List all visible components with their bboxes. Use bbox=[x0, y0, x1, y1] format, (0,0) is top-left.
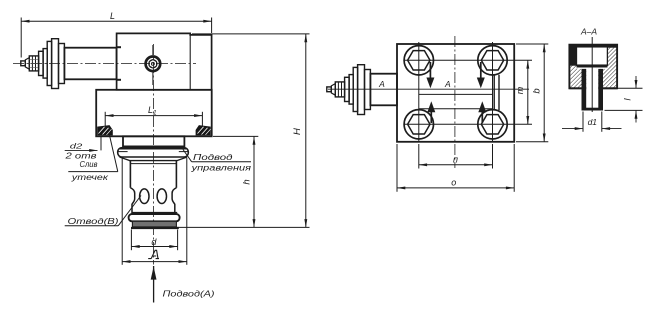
wire body step edge bbox=[189, 35, 191, 90]
node bolt hole walls bbox=[586, 69, 598, 110]
wire slot line 1 bbox=[493, 75, 495, 110]
wire leader to pocket bbox=[109, 133, 118, 172]
svg-text:о: о bbox=[451, 178, 456, 188]
node washer line bbox=[577, 65, 608, 68]
node drain pocket right (d2) bbox=[196, 125, 211, 135]
wire screw tip knob bbox=[21, 61, 26, 66]
wire screw locknut bbox=[52, 39, 59, 89]
node hex plug on body bbox=[146, 57, 161, 72]
node dimension H bbox=[192, 33, 310, 35]
node dimension p bbox=[418, 144, 420, 169]
node left-view bbox=[13, 11, 310, 302]
svg-text:управления: управления bbox=[190, 162, 251, 172]
node dimension d1 bbox=[582, 112, 584, 132]
node dimension m bbox=[527, 60, 529, 124]
wire screw spacer bbox=[43, 49, 47, 79]
svg-text:Отвод(В): Отвод(В) bbox=[68, 216, 119, 226]
wire centerline vertical (left view) bbox=[152, 44, 154, 265]
wire screw flange bbox=[353, 67, 357, 111]
wire screw threaded section bbox=[29, 56, 38, 71]
wire screw washer bbox=[39, 51, 44, 75]
node seal ring bbox=[132, 221, 176, 227]
svg-text:А–А: А–А bbox=[580, 26, 597, 36]
node dimension L bbox=[21, 20, 211, 22]
node sectioned block bbox=[569, 45, 617, 89]
wire cartridge lower seal groove bbox=[129, 214, 180, 221]
svg-text:d1: d1 bbox=[588, 117, 598, 127]
node bolt top-right bbox=[478, 46, 507, 75]
node dimension L1 bbox=[105, 115, 202, 117]
node section arrow top-right bbox=[480, 62, 482, 79]
wire channel bottom edge bbox=[419, 108, 493, 110]
wire leader to bulge bbox=[183, 150, 192, 162]
wire screw collar bbox=[59, 44, 65, 84]
node dimension d bbox=[130, 230, 132, 251]
svg-text:2 отв: 2 отв bbox=[64, 151, 96, 160]
wire screw spacer bbox=[349, 75, 353, 105]
svg-text:А: А bbox=[378, 79, 385, 89]
node section A-A view bbox=[562, 26, 643, 131]
svg-text:H: H bbox=[292, 128, 303, 135]
node dimension b bbox=[516, 43, 548, 45]
wire cartridge seal bulge bbox=[118, 148, 189, 157]
node port hole B right bbox=[157, 189, 166, 204]
wire top face band bbox=[569, 45, 617, 48]
wire centerline screw axis (left view) bbox=[13, 63, 196, 65]
node section arrow bottom-right bbox=[481, 106, 483, 123]
node top-view bbox=[327, 36, 549, 192]
wire leader to port B bbox=[118, 196, 141, 226]
wire cartridge taper bbox=[120, 157, 188, 161]
wire channel top edge bbox=[419, 93, 493, 95]
wire left wall solid upper bbox=[569, 45, 576, 66]
node section arrow top-left bbox=[429, 62, 431, 79]
wire screw locknut bbox=[358, 65, 365, 115]
wire centerline vertical (top view) bbox=[454, 36, 456, 168]
node dimension o bbox=[396, 144, 398, 192]
wire tube joint bottom bbox=[117, 79, 121, 81]
node dimension D bbox=[121, 158, 123, 265]
node drain pocket left (d2) bbox=[97, 125, 113, 135]
node bolt bottom-right bbox=[478, 110, 507, 139]
svg-text:d2: d2 bbox=[70, 142, 84, 151]
svg-text:m: m bbox=[515, 86, 525, 94]
wire cartridge neck bbox=[130, 188, 134, 214]
node section arrow bottom-left bbox=[430, 106, 432, 123]
node dimension h bbox=[213, 135, 258, 137]
wire spring tube bbox=[64, 48, 116, 80]
wire cartridge bottom face bbox=[131, 227, 179, 229]
wire screw threaded section bbox=[335, 82, 344, 97]
wire screw washer bbox=[345, 77, 350, 101]
wire leader from pocket bbox=[100, 137, 102, 151]
svg-text:Слив: Слив bbox=[80, 160, 98, 169]
wire centerline section A-A bbox=[591, 37, 593, 112]
wire centerline bolt row top bbox=[404, 59, 532, 61]
svg-text:b: b bbox=[531, 88, 542, 93]
svg-text:п: п bbox=[453, 154, 458, 164]
wire tube joint top bbox=[117, 46, 121, 48]
wire slot line 2 bbox=[498, 75, 500, 110]
node supply arrow Podvod A bbox=[153, 266, 155, 303]
svg-text:L: L bbox=[110, 11, 115, 21]
wire screw tip knob bbox=[327, 87, 332, 92]
svg-text:А: А bbox=[444, 79, 451, 89]
svg-text:h: h bbox=[241, 179, 252, 184]
wire cartridge top collar bbox=[123, 136, 184, 146]
wire cylinder bottom step bbox=[132, 212, 177, 214]
svg-text:утечек: утечек bbox=[71, 173, 110, 182]
wire screw tip cone bbox=[25, 58, 29, 70]
wire section line A-A axis bbox=[328, 88, 529, 90]
wire centerline bolt col left bbox=[418, 42, 420, 142]
wire centerline bolt row bottom bbox=[404, 123, 532, 125]
wire spring tube (top view) bbox=[370, 74, 397, 106]
node bolt bottom-left bbox=[404, 110, 433, 139]
node mounting plate (left view) bbox=[96, 90, 212, 137]
node dimension l bbox=[604, 87, 643, 89]
wire block bottom edge bbox=[569, 87, 581, 89]
node bolt top-left bbox=[404, 46, 433, 75]
node counterbore bbox=[577, 47, 608, 65]
wire screw flange bbox=[47, 41, 51, 85]
node valve body (left view) bbox=[117, 33, 212, 89]
node mounting plate (top view) bbox=[397, 44, 514, 142]
wire hole bottom cap bbox=[582, 108, 604, 111]
svg-text:Подвод(А): Подвод(А) bbox=[163, 288, 215, 298]
wire screw collar bbox=[365, 70, 371, 110]
wire cartridge upper cylinder bbox=[129, 161, 131, 188]
svg-text:Подвод: Подвод bbox=[193, 152, 233, 162]
node port hole B left bbox=[140, 189, 149, 204]
wire centerline bolt col right bbox=[492, 42, 494, 142]
